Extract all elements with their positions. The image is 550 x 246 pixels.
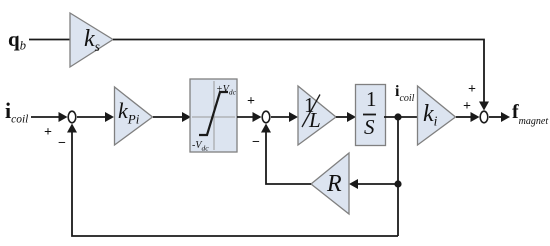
saturation block — [190, 79, 237, 153]
gain block k_s — [70, 13, 113, 67]
summing junction 2 — [262, 111, 270, 123]
wire summer 2 to 1/L — [271, 112, 298, 122]
gain block k_i — [418, 86, 456, 145]
wire summer 1 to k_Pi — [77, 112, 114, 122]
wire saturation to summer 2 — [237, 112, 262, 122]
plus sign at top of output summer — [468, 82, 476, 97]
wire R to summer 2 (corner up) — [261, 124, 311, 185]
svg-text:+: + — [247, 94, 255, 109]
summing junction 1 — [68, 111, 76, 123]
svg-text:+: + — [44, 125, 52, 140]
wire q_b to k_s — [29, 39, 70, 41]
plus sign at summer 2 — [247, 94, 255, 109]
output label f_magnet — [512, 101, 548, 127]
integrator block 1/S — [356, 85, 386, 146]
minus sign at summer 1 — [58, 136, 66, 151]
wire i_coil to summer 1 — [31, 112, 68, 122]
svg-text:−: − — [252, 135, 260, 150]
svg-text:1: 1 — [366, 87, 377, 111]
node junction on feedback — [394, 180, 401, 187]
wire 1/S to k_i — [384, 116, 417, 118]
svg-text:−: − — [58, 136, 66, 151]
svg-text:S: S — [364, 115, 375, 139]
svg-text:+: + — [468, 82, 476, 97]
plus sign at summer 1 — [44, 125, 52, 140]
input label q_b — [8, 27, 26, 53]
gain block k_Pi — [115, 87, 153, 145]
wire 1/L to 1/S — [336, 112, 356, 122]
outer feedback wire to summer 1 — [67, 124, 398, 237]
gain block R — [311, 153, 349, 214]
node i_coil — [394, 113, 401, 120]
gain block 1/L — [298, 86, 336, 145]
wire k_s to top summing junction (with corner) — [113, 40, 489, 111]
input label i_coil — [5, 98, 28, 126]
svg-text:+: + — [463, 99, 471, 114]
minus sign at summer 2 — [252, 135, 260, 150]
wire k_Pi to saturation block — [153, 112, 191, 122]
wire summer 3 to f_magnet — [489, 112, 510, 122]
wire k_i to summer 3 — [456, 112, 480, 122]
plus sign at summer 3 left — [463, 99, 471, 114]
svg-text:R: R — [326, 171, 342, 197]
node label i_coil — [395, 83, 415, 104]
summing junction 3 — [480, 111, 488, 123]
wire node down to R feedback and bottom loop — [397, 117, 399, 236]
wire node to R block — [349, 179, 398, 189]
